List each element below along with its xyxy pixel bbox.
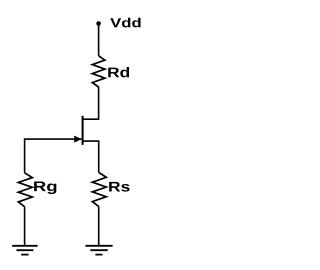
wire Vdd node to Rd top — [98, 24, 100, 56]
label Rd — [108, 67, 129, 77]
wire Rg bottom to left ground — [24, 207, 26, 245]
label Vdd — [110, 18, 140, 28]
node Vdd (junction dot) — [96, 21, 101, 26]
resistor Rg — [18, 173, 32, 207]
label Rs — [109, 182, 129, 192]
wire gate of Q1 to left column and down to Rg top — [25, 139, 82, 173]
wire Rd bottom to drain of Q1 — [84, 87, 99, 119]
ground (right) — [85, 246, 112, 255]
wire Rs bottom to right ground — [98, 207, 100, 246]
resistor Rs — [92, 172, 106, 206]
label Rg — [34, 181, 56, 194]
transistor Q1 (n-JFET): channel bar and gate arrowhead — [74, 116, 82, 145]
wire source of Q1 to Rs top — [84, 141, 99, 172]
resistor Rd — [92, 56, 105, 87]
ground (left) — [12, 246, 37, 255]
